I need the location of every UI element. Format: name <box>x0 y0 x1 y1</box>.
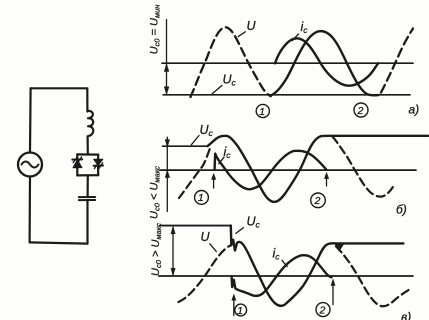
plot a: dashed curve U right <box>381 29 413 93</box>
svg-text:а): а) <box>409 103 420 117</box>
svg-text:1: 1 <box>237 305 243 317</box>
plot b: curve ic <box>215 151 327 190</box>
svg-text:Uc0 > Uмакс: Uc0 > Uмакс <box>150 223 163 276</box>
plot b: dimension arrows <box>166 137 168 211</box>
capacitor C1 <box>79 196 95 198</box>
wire bottom <box>30 242 88 243</box>
svg-text:2: 2 <box>313 195 320 207</box>
svg-text:Uc: Uc <box>247 215 261 230</box>
plot a: curve Uc <box>272 31 379 95</box>
wire <box>86 137 88 155</box>
svg-text:ic: ic <box>301 20 309 35</box>
plot b: dashed U left <box>179 148 210 199</box>
plot b: marker 2 <box>311 193 326 208</box>
plot a: marker 2 <box>354 103 368 117</box>
plot v: label Uc tick <box>236 228 244 234</box>
plot v: marker 2 <box>316 303 330 317</box>
plot b: axis label Uc0&lt;Umax <box>149 166 162 219</box>
svg-text:Uc0 < Uмакс: Uc0 < Uмакс <box>149 166 162 219</box>
svg-text:U: U <box>247 19 257 33</box>
diode box top <box>77 153 98 155</box>
wire right upper <box>86 88 88 111</box>
svg-text:2: 2 <box>356 105 363 117</box>
plot v: curve ic lower spike and hump <box>232 255 332 296</box>
plot b: dashed U right <box>333 137 393 197</box>
plot v: dashed U left <box>179 245 232 302</box>
plot v: axis label Uc0&gt;Umax <box>150 223 163 276</box>
AC source G1 <box>18 153 42 177</box>
plot v: dimension arrow <box>172 228 174 275</box>
plot a: axis <box>162 62 413 64</box>
plot b: arrow at 1 <box>213 177 215 189</box>
plot b: axis <box>160 169 416 171</box>
plot b: label ic tick <box>219 157 224 164</box>
diode VD1 (left, pointing up) <box>76 154 78 159</box>
plot a: Uc level line <box>163 94 410 96</box>
wire top <box>31 87 88 89</box>
plot v: dashed U right with arrowhead <box>335 243 344 251</box>
plot a: label ic tick <box>292 34 298 41</box>
svg-text:в): в) <box>401 310 411 320</box>
diode box bottom <box>77 174 98 176</box>
plot v: label ic tick <box>282 260 287 266</box>
plot a: dashed curve U <box>191 27 271 97</box>
plot v: arrow at 2 <box>332 284 334 305</box>
svg-text:б): б) <box>396 203 407 217</box>
diode VD2 (right, pointing down) <box>97 155 99 160</box>
svg-text:U: U <box>201 230 211 244</box>
plot a: curve ic <box>275 38 378 85</box>
svg-text:ic: ic <box>273 247 281 262</box>
plot a: axis label Uc0=Umin <box>149 5 162 55</box>
plot v: Uc0 top line <box>160 225 231 227</box>
plot b: Uc0 level line <box>163 145 208 147</box>
wire left lower <box>29 177 32 243</box>
wire <box>86 200 88 243</box>
plot v: curve Uc drop, notch, deep swing and rise to plateau <box>231 226 404 306</box>
plot a: marker 1 <box>256 104 269 117</box>
plot a: dimension arrow <box>166 20 168 94</box>
plot v: marker 1 <box>235 304 247 316</box>
svg-text:Uc: Uc <box>223 73 237 88</box>
plot v: arrow at 1 <box>233 298 235 316</box>
plot b: label Uc tick <box>191 136 199 145</box>
svg-text:Uc0 = Uмин: Uc0 = Uмин <box>149 5 162 55</box>
svg-text:2: 2 <box>318 304 325 316</box>
plot b: marker 1 <box>195 191 209 205</box>
svg-text:Uc: Uc <box>200 123 214 138</box>
wire left upper <box>29 88 32 152</box>
svg-text:1: 1 <box>198 192 204 204</box>
svg-text:ic: ic <box>224 145 232 160</box>
inductor L1 <box>87 111 93 136</box>
plot v: axis <box>159 275 413 277</box>
plot v: label U tick <box>210 244 217 252</box>
plot a: label U tick <box>238 32 245 37</box>
wire <box>86 175 88 197</box>
plot b: curve Uc <box>208 136 429 202</box>
plot b: arrow at 2 <box>326 177 328 186</box>
svg-text:1: 1 <box>259 106 265 118</box>
plot a: label Uc tick <box>212 85 222 94</box>
